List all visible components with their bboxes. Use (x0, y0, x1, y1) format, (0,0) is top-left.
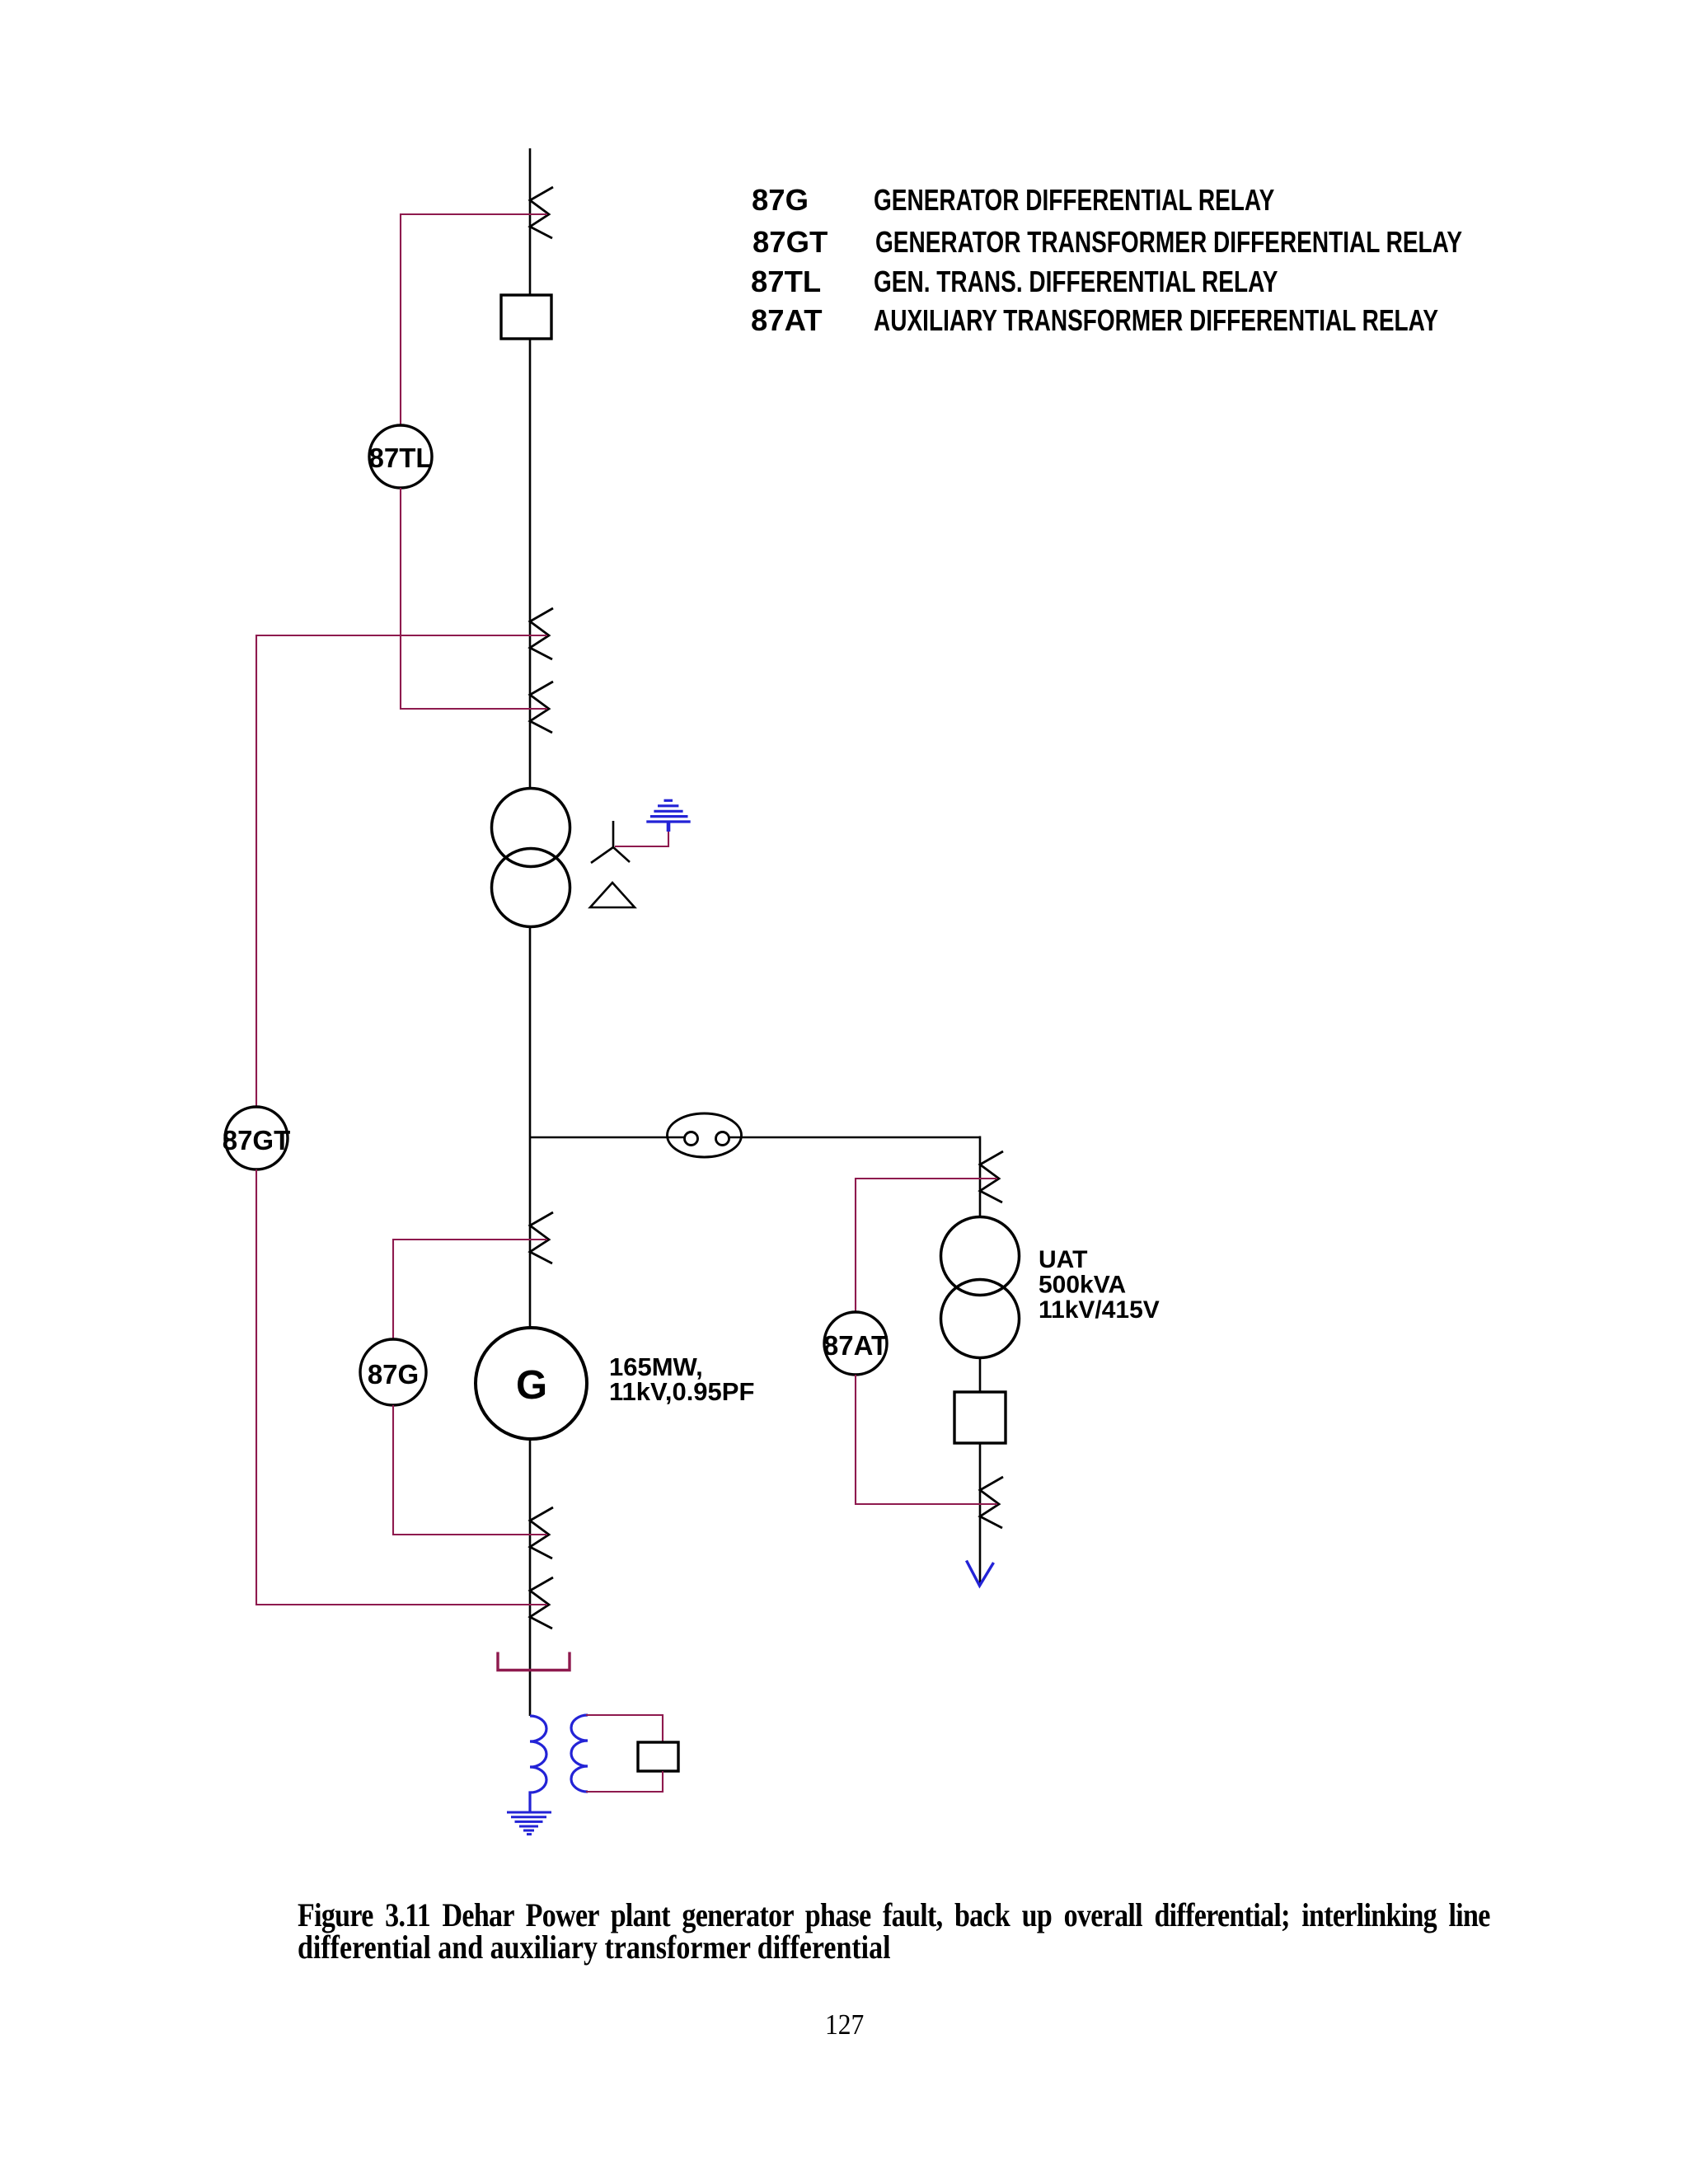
breaker: UAT LV breaker square (954, 1392, 1006, 1443)
generator G 165MW (476, 1328, 587, 1439)
svg-text:87GT: 87GT (223, 1125, 291, 1155)
relay 87G circle (360, 1339, 426, 1405)
wire: maroon 87AT upper lead (856, 1179, 997, 1312)
svg-text:G: G (516, 1363, 547, 1408)
delta winding symbol of GT (590, 883, 635, 907)
ground: GT neutral earth (blue hatched triangle) (646, 800, 690, 832)
CT CT8 on UAT LV side (980, 1477, 1003, 1528)
page number 127 (825, 2008, 864, 2041)
CT CT4 above generator (530, 1212, 553, 1263)
wire: maroon 87G upper lead (393, 1240, 547, 1339)
connector pin right small circle (716, 1132, 729, 1146)
CT CT7 on UAT HV side (980, 1151, 1003, 1202)
transformer GT generator transformer LV winding (lower circle) (492, 849, 570, 927)
svg-text:11kV,0.95PF: 11kV,0.95PF (609, 1377, 754, 1406)
wire: maroon neutral link from star point to earth (615, 830, 668, 846)
CT CT5 below generator (530, 1507, 553, 1558)
transformer UAT HV winding (upper circle) (941, 1217, 1020, 1296)
transformer UAT LV winding (lower circle) (941, 1280, 1020, 1358)
wire: maroon 87TL upper lead (401, 214, 547, 425)
CT CT2 on HV lead (upper of middle CT pair) (530, 608, 553, 659)
CT CT3 on HV lead (lower of middle CT pair) (530, 682, 553, 733)
wire: HV lead top vertical (incoming line) (529, 148, 532, 788)
relay 87TL circle (369, 425, 432, 488)
svg-text:87AT: 87AT (823, 1330, 888, 1361)
wire: horizontal from oval to UAT branch corner (729, 1137, 981, 1139)
wire: maroon 87G lower lead (393, 1405, 547, 1535)
wire: horizontal tap to UAT branch (530, 1137, 684, 1139)
svg-text:87G: 87G (752, 183, 809, 217)
svg-text:87AT: 87AT (751, 303, 823, 337)
bracket: neutral CT cup (maroon) (498, 1652, 570, 1671)
wire: maroon 87AT lower lead (856, 1375, 997, 1504)
connector: drawout link oval (668, 1113, 742, 1157)
caption: Figure 3.11 (298, 1899, 1490, 1963)
breaker 52 (HV circuit breaker square) (501, 295, 551, 339)
svg-text:87G: 87G (368, 1359, 419, 1390)
inductor: NGT secondary winding (blue) (571, 1715, 588, 1792)
relay 87AT circle (824, 1312, 887, 1375)
svg-text:AUXILIARY TRANSFORMER DIFFEREN: AUXILIARY TRANSFORMER DIFFERENTIAL RELAY (874, 303, 1438, 336)
wire: generator neutral vertical (529, 1438, 532, 1716)
transformer GT generator transformer HV winding (upper circle) (492, 789, 570, 867)
wire: generator bus vertical (GT LV to generator) (529, 927, 532, 1329)
wire: maroon 87GT lower lead (256, 1169, 547, 1605)
svg-text:87TL: 87TL (368, 443, 432, 473)
wire: UAT LV vertical to breaker box (979, 1357, 982, 1392)
wire: UAT LV feeder vertical (979, 1443, 982, 1584)
wire: maroon NGT secondary loop to resistor (586, 1715, 663, 1742)
svg-text:87GT: 87GT (753, 225, 828, 259)
star (wye) winding symbol of GT (591, 821, 630, 863)
inductor: NGT primary winding (blue) (530, 1716, 546, 1811)
resistor: neutral grounding resistor box (638, 1742, 678, 1771)
svg-text:GENERATOR TRANSFORMER DIFFEREN: GENERATOR TRANSFORMER DIFFERENTIAL RELAY (875, 225, 1462, 258)
arrow: feeder outgoing arrowhead (blue) (967, 1561, 994, 1586)
CT CT6 below generator (530, 1577, 553, 1629)
relay 87GT circle (225, 1107, 288, 1169)
svg-text:11kV/415V: 11kV/415V (1039, 1296, 1160, 1324)
ground: generator neutral earth (blue) (507, 1812, 551, 1835)
svg-text:GEN. TRANS. DIFFERENTIAL RELAY: GEN. TRANS. DIFFERENTIAL RELAY (874, 265, 1278, 298)
svg-text:GENERATOR DIFFERENTIAL RELAY: GENERATOR DIFFERENTIAL RELAY (874, 183, 1275, 216)
wire: maroon 87TL lower lead (401, 488, 547, 709)
svg-text:UAT: UAT (1039, 1246, 1087, 1273)
wire: UAT branch vertical upper (979, 1137, 982, 1218)
svg-text:500kVA: 500kVA (1039, 1272, 1126, 1299)
svg-text:87TL: 87TL (751, 265, 821, 298)
wire: maroon 87GT upper lead (256, 635, 547, 1107)
CT CT1 on HV lead (top line CT) (530, 187, 553, 238)
wire: maroon NGT secondary loop return (586, 1771, 663, 1792)
connector pin left small circle (685, 1132, 698, 1146)
